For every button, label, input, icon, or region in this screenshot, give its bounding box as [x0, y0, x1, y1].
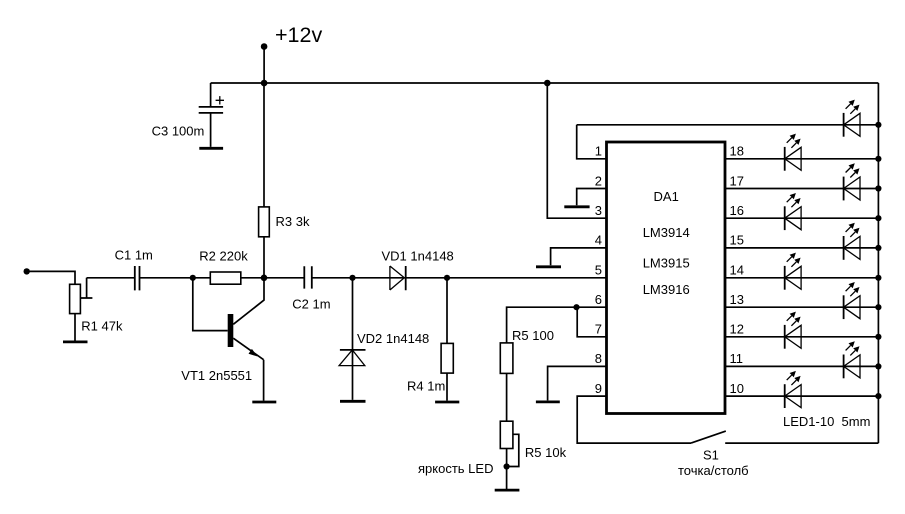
- svg-text:9: 9: [595, 381, 602, 396]
- svg-text:8: 8: [595, 351, 602, 366]
- svg-text:R1 47k: R1 47k: [81, 319, 123, 334]
- svg-text:DA1: DA1: [654, 189, 679, 204]
- svg-text:14: 14: [730, 263, 744, 278]
- svg-text:R5 10k: R5 10k: [525, 445, 567, 460]
- svg-text:LED1-10 5mm: LED1-10 5mm: [783, 414, 870, 429]
- svg-text:1: 1: [595, 144, 602, 159]
- svg-text:яркость LED: яркость LED: [418, 461, 493, 476]
- svg-text:12: 12: [730, 322, 744, 337]
- svg-text:3: 3: [595, 203, 602, 218]
- svg-text:C1 1m: C1 1m: [115, 248, 153, 263]
- svg-text:11: 11: [730, 351, 744, 366]
- svg-text:VD1 1n4148: VD1 1n4148: [382, 249, 454, 264]
- svg-text:R3 3k: R3 3k: [276, 214, 310, 229]
- svg-text:C3 100m: C3 100m: [152, 123, 205, 138]
- svg-text:VD2 1n4148: VD2 1n4148: [357, 331, 429, 346]
- svg-text:LM3915: LM3915: [643, 255, 690, 270]
- svg-text:точка/столб: точка/столб: [678, 463, 749, 478]
- svg-text:4: 4: [595, 233, 602, 248]
- svg-text:6: 6: [595, 292, 602, 307]
- svg-text:R4 1m: R4 1m: [407, 379, 445, 394]
- svg-text:18: 18: [730, 144, 744, 159]
- svg-text:15: 15: [730, 233, 744, 248]
- svg-text:2: 2: [595, 173, 602, 188]
- svg-text:+12v: +12v: [275, 23, 322, 47]
- svg-text:16: 16: [730, 203, 744, 218]
- svg-text:10: 10: [730, 381, 744, 396]
- svg-text:S1: S1: [703, 448, 719, 463]
- svg-text:LM3916: LM3916: [643, 282, 690, 297]
- svg-text:VT1 2n5551: VT1 2n5551: [181, 368, 252, 383]
- svg-text:LM3914: LM3914: [643, 225, 690, 240]
- svg-text:R5 100: R5 100: [512, 328, 554, 343]
- svg-text:C2 1m: C2 1m: [292, 297, 330, 312]
- svg-text:5: 5: [595, 263, 602, 278]
- svg-text:R2 220k: R2 220k: [199, 248, 248, 263]
- svg-text:7: 7: [595, 322, 602, 337]
- svg-text:17: 17: [730, 173, 744, 188]
- svg-text:13: 13: [730, 292, 744, 307]
